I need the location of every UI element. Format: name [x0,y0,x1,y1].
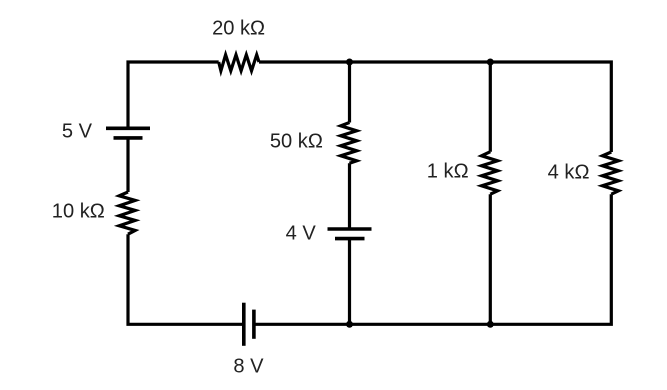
svg-text:1 kΩ: 1 kΩ [427,161,469,183]
battery 8V long plate [242,303,246,346]
wire middle branch mid: 50k resistor to 4V battery [348,163,351,229]
node junction dot bottom middle [346,321,353,328]
battery 4V short plate [335,237,365,241]
battery 8V short plate [252,310,256,339]
svg-text:50 kΩ: 50 kΩ [270,131,323,153]
wire middle branch upper: top node to 50k resistor [348,62,351,123]
svg-text:10 kΩ: 10 kΩ [52,201,105,223]
wire 1k branch lower: 1k resistor to bottom node [489,194,492,324]
wire left branch middle: 5V battery to 10k resistor [126,138,129,192]
svg-text:4 V: 4 V [286,223,317,245]
svg-text:4 kΩ: 4 kΩ [548,162,590,184]
resistor R 10k (vertical, left) [119,192,135,234]
node junction dot bottom 1k branch [487,321,494,328]
wire top-right segment and right edge upper (corner at 611.3,62) [259,62,611,152]
battery 5V long plate [106,127,150,131]
wire top-left segment and left branch upper (corner at 128,62) [128,62,219,128]
wire left branch lower and bottom-left segment (corner at 128,324.3) [128,234,244,324]
resistor R 20k (horizontal, top) [219,55,259,71]
resistor R 4k (vertical, right edge) [603,152,619,194]
svg-text:20 kΩ: 20 kΩ [212,18,265,40]
resistor R 1k (vertical) [482,152,498,195]
node junction dot top 1k branch [487,59,494,66]
wire 1k branch upper: top node to 1k resistor [489,62,492,152]
node junction dot top middle [346,59,353,66]
resistor R 50k (vertical, middle) [341,123,357,164]
battery 5V short plate [114,136,143,140]
svg-text:5 V: 5 V [62,121,93,143]
wire middle branch lower: 4V battery to bottom node [348,239,351,325]
wire bottom-right segment and right edge lower (corner at 611.3,324.3) [254,194,611,324]
battery 4V long plate [328,227,372,231]
svg-text:8 V: 8 V [233,355,264,377]
